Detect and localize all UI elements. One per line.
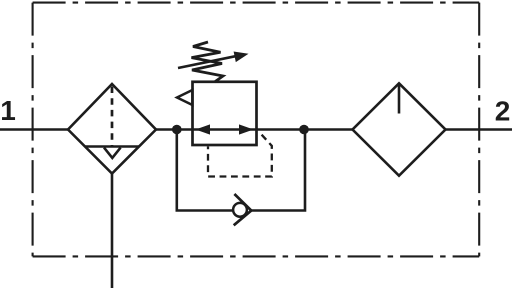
regulator R1 body	[193, 82, 257, 145]
node A (junction dot)	[172, 125, 182, 135]
check valve CV1 seat	[234, 194, 252, 225]
check valve CV1 ball	[233, 203, 247, 217]
enclosure border left edge (dash-dot)	[32, 3, 34, 257]
node B (junction dot)	[299, 125, 309, 135]
drain line (through bottom border)	[111, 174, 114, 289]
filter F1 body (diamond)	[68, 84, 156, 174]
filter F1 separator chord	[85, 145, 139, 148]
regulator R1 pilot line (dashed)	[208, 131, 272, 176]
enclosure border top edge (dash-dot)	[33, 2, 480, 4]
regulator R1 right flow arrowhead	[239, 124, 254, 134]
regulator R1 adjustment arrowhead	[234, 52, 249, 63]
regulator R1 left flow arrowhead	[196, 124, 211, 134]
wire: regulator to lubricator (through node B)	[256, 128, 353, 131]
enclosure border bottom edge (dash-dot)	[33, 255, 480, 257]
lubricator L1 oil drip line	[398, 83, 401, 113]
regulator R1 relief vent triangle	[177, 90, 192, 105]
wire: bypass down-left leg from node A	[177, 130, 233, 211]
wire: bypass right leg to node B	[251, 130, 305, 211]
filter F1 condensate drain triangle	[104, 148, 121, 158]
lubricator L1 body (diamond)	[353, 83, 446, 175]
svg-text:1: 1	[0, 95, 16, 126]
wire: filter to regulator (through node A)	[156, 128, 194, 131]
wire: flow line through regulator box	[193, 128, 256, 131]
wire: inlet from port 1 to filter	[0, 128, 69, 131]
regulator R1 adjustment spring (zigzag)	[192, 42, 224, 82]
filter F1 element (dashed centre line)	[111, 87, 114, 147]
regulator R1 adjustment arrow shaft	[178, 56, 238, 68]
wire: lubricator to port 2	[446, 128, 512, 131]
svg-text:2: 2	[495, 95, 511, 126]
enclosure border right edge (dash-dot)	[478, 3, 480, 257]
